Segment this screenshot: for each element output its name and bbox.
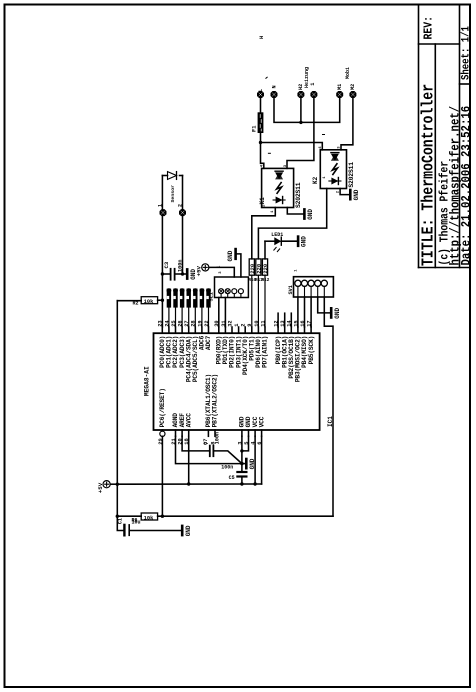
wire SV1 sck — [310, 297, 312, 327]
wire vcc pin4 — [254, 436, 256, 484]
svg-text:PB5(SCK): PB5(SCK) — [308, 336, 315, 365]
ground K2 — [349, 190, 352, 199]
svg-text:M1: M1 — [337, 84, 343, 90]
ground sensor — [186, 269, 189, 278]
svg-text:C3: C3 — [163, 261, 170, 268]
wire LED1 left — [265, 240, 274, 242]
svg-text:REV:: REV: — [423, 16, 436, 39]
wire C5 top — [241, 464, 243, 471]
ic bottom pin stubs, numbers and names — [161, 430, 163, 436]
wire M2 to K2 pin3 — [341, 99, 353, 150]
wire L to K1 pin4 — [261, 143, 264, 169]
svg-text:M2: M2 — [350, 84, 356, 90]
svg-text:Sheet: 1/1: Sheet: 1/1 — [460, 26, 473, 80]
svg-text:1: 1 — [323, 176, 327, 179]
wire H2 pad — [300, 99, 302, 123]
led LED1 — [274, 237, 281, 245]
wire SV1 miso — [304, 297, 306, 327]
svg-text:SV1: SV1 — [288, 285, 294, 294]
junction reset drop — [161, 515, 164, 518]
svg-text:GND: GND — [353, 189, 360, 200]
svg-text:GND: GND — [185, 525, 192, 536]
wire R6 to reset net — [158, 515, 333, 517]
wire rail to R6 — [117, 515, 141, 517]
wire aref to C7 — [182, 436, 209, 451]
svg-text:1: 1 — [217, 265, 221, 268]
svg-text:+5V: +5V — [97, 482, 104, 493]
wire LED1 to R12 — [264, 241, 266, 259]
svg-text:1: 1 — [158, 204, 164, 207]
ic IC1 body — [154, 333, 320, 430]
pad sensor 2 — [179, 209, 186, 216]
svg-text:10u: 10u — [132, 520, 141, 526]
svg-text:Heizung: Heizung — [304, 67, 310, 88]
wire +5V rail horizontal — [117, 483, 261, 485]
optotriac K1 body — [262, 168, 294, 207]
output terminal pads — [257, 91, 264, 98]
connector SV1 pins — [295, 280, 301, 286]
svg-text:GND: GND — [301, 236, 308, 247]
wire JP1 gnd — [237, 254, 241, 277]
fuse F1 — [258, 112, 264, 133]
wire gnd node to symbol — [242, 463, 245, 465]
svg-text:2: 2 — [178, 204, 184, 207]
wire +5V flag stub — [110, 483, 117, 485]
svg-text:100n: 100n — [177, 260, 183, 272]
connector SV1 box — [294, 277, 334, 297]
wire C7 to gnd diag — [215, 451, 242, 464]
wire JP1 txd — [224, 298, 226, 328]
wire sensor return — [182, 176, 184, 275]
resistor R2 — [141, 297, 157, 304]
pad sensor 1 — [160, 209, 167, 216]
svg-text:SL1: SL1 — [209, 292, 215, 301]
wire K2 pin1 to R11 — [258, 189, 326, 259]
svg-text:GND: GND — [227, 250, 234, 261]
junction sensor/C3 — [161, 272, 164, 275]
capacitor C1 — [123, 525, 125, 535]
capacitor C5 — [236, 471, 247, 473]
wire C5 bottom — [241, 478, 243, 484]
svg-text:S202S11: S202S11 — [295, 182, 302, 208]
svg-text:Sensor: Sensor — [170, 185, 176, 203]
connector JP1 box — [215, 277, 249, 298]
ground SV1 — [330, 308, 333, 317]
svg-text:10k: 10k — [144, 299, 154, 305]
svg-text:100n: 100n — [221, 465, 233, 471]
svg-text:ADC7: ADC7 — [205, 335, 212, 350]
svg-text:S202S11: S202S11 — [348, 162, 355, 188]
junction avcc/rail — [187, 482, 190, 485]
diode D2 sensor clamp — [162, 175, 167, 177]
supply +5V flag 1 — [103, 481, 110, 488]
wire gnd pin 5 — [242, 436, 249, 451]
wire reset pin drop — [161, 436, 163, 516]
wire vcc pin6 — [261, 436, 263, 484]
wire R2 to sensor line — [158, 299, 163, 301]
svg-text:32: 32 — [227, 320, 233, 326]
resistor R6 — [141, 513, 157, 520]
wire gnd pin 3 — [241, 436, 243, 463]
connector JP1 pins — [219, 289, 224, 294]
ground C1 — [181, 526, 184, 535]
supply +5V flag 2 — [202, 264, 209, 271]
wire reset to SV1 — [324, 297, 333, 516]
svg-text:1: 1 — [234, 324, 240, 327]
svg-text:PC6(/RESET): PC6(/RESET) — [159, 388, 166, 427]
svg-text:100n: 100n — [214, 432, 220, 444]
junction gnd pins merge — [240, 449, 243, 452]
junction C5/rail — [240, 482, 243, 485]
wire SV1 gnd — [318, 297, 330, 313]
svg-text:GND: GND — [307, 209, 314, 220]
svg-text:MEGA8-AI: MEGA8-AI — [144, 366, 151, 396]
capacitor C3 — [170, 269, 172, 280]
svg-text:220: 220 — [262, 263, 269, 274]
svg-text:K1: K1 — [259, 197, 266, 205]
svg-text:R12: R12 — [262, 278, 270, 283]
junction rail/R6 — [116, 515, 119, 518]
wire C3 to gnd — [176, 273, 186, 275]
wire agnd — [176, 436, 242, 463]
svg-text:GND: GND — [334, 307, 341, 318]
ground logic — [245, 459, 248, 468]
svg-text:C7: C7 — [203, 439, 209, 445]
svg-text:PB7(XTAL2/OSC2): PB7(XTAL2/OSC2) — [212, 374, 219, 427]
junction sensor return at gnd wire — [181, 272, 184, 275]
wire 5V rail vertical — [116, 301, 118, 517]
svg-text:R2: R2 — [133, 300, 139, 306]
svg-text:1: 1 — [310, 83, 316, 86]
wire JP1 rxd — [218, 298, 220, 328]
wire C1 to gnd — [131, 530, 182, 532]
svg-text:AVCC: AVCC — [185, 413, 192, 428]
svg-text:L: L — [258, 89, 264, 92]
svg-text:1: 1 — [271, 210, 275, 213]
wire JP1 +5V — [209, 267, 234, 277]
ground K1 — [303, 209, 306, 218]
pb0-pb2 stub wires — [277, 313, 279, 327]
wire K2 pin2 to gnd — [340, 189, 349, 195]
wire sensor line ADC0 — [161, 176, 163, 328]
wire N net — [274, 99, 340, 123]
svg-text:K2: K2 — [312, 176, 319, 184]
wire K1 pin1 to R10 — [252, 208, 275, 259]
wire L to K2 pin4 — [261, 143, 323, 150]
svg-text:Date: 21.02.2006 23:52:16: Date: 21.02.2006 23:52:16 — [459, 106, 474, 266]
optotriac K2 body — [320, 150, 346, 189]
svg-text:+5V: +5V — [196, 265, 203, 276]
junction R2/sensor — [161, 299, 164, 302]
wire C3 left lead — [162, 273, 169, 275]
ground JP1 — [234, 249, 237, 259]
svg-text:Mobi: Mobi — [345, 67, 351, 79]
wire fuse to junction — [260, 133, 262, 143]
svg-text:VCC: VCC — [258, 416, 265, 427]
resistors R10 R11 R12 with wires — [249, 259, 254, 275]
svg-text:3: 3 — [219, 271, 223, 274]
svg-text:C1: C1 — [118, 518, 124, 524]
svg-text:F1: F1 — [251, 126, 257, 132]
junction N/H2 — [299, 121, 302, 124]
wire H1 to K1 pin3 — [287, 99, 314, 169]
svg-text:PD7(AIN1): PD7(AIN1) — [262, 336, 269, 368]
ic reset pin bubble — [160, 431, 165, 436]
junction rail/+5V flag — [116, 483, 119, 486]
svg-text:2: 2 — [241, 324, 247, 327]
wire K1 pin2 to gnd — [287, 208, 303, 215]
junction L net — [259, 141, 262, 144]
svg-text:H: H — [259, 36, 265, 39]
svg-text:N: N — [271, 85, 277, 88]
ground LED1 — [297, 237, 300, 246]
svg-text:1: 1 — [295, 269, 299, 272]
wire LED1 right to gnd — [281, 240, 297, 242]
svg-text:LED1: LED1 — [271, 232, 283, 238]
junction vcc/rail — [253, 482, 256, 485]
net tick 1 — [268, 152, 270, 154]
svg-text:10k: 10k — [144, 515, 154, 521]
wire L pad to fuse — [260, 99, 262, 113]
adc input pads P1-P7 with wires — [167, 288, 172, 293]
wire SV1 mosi — [297, 297, 299, 327]
title block outline — [418, 5, 420, 268]
ic top pin stubs, numbers and names — [161, 327, 163, 333]
wire rail to C1 — [117, 516, 123, 530]
capacitor C7 — [209, 446, 211, 457]
wire rail top corner — [117, 300, 141, 302]
junction gnd node — [240, 462, 243, 465]
svg-text:TITLE: ThermoController: TITLE: ThermoController — [420, 84, 438, 266]
tick mark — [266, 77, 267, 78]
svg-text:C5: C5 — [229, 475, 235, 481]
net tick 2 — [323, 134, 325, 136]
wire avcc — [188, 436, 190, 484]
